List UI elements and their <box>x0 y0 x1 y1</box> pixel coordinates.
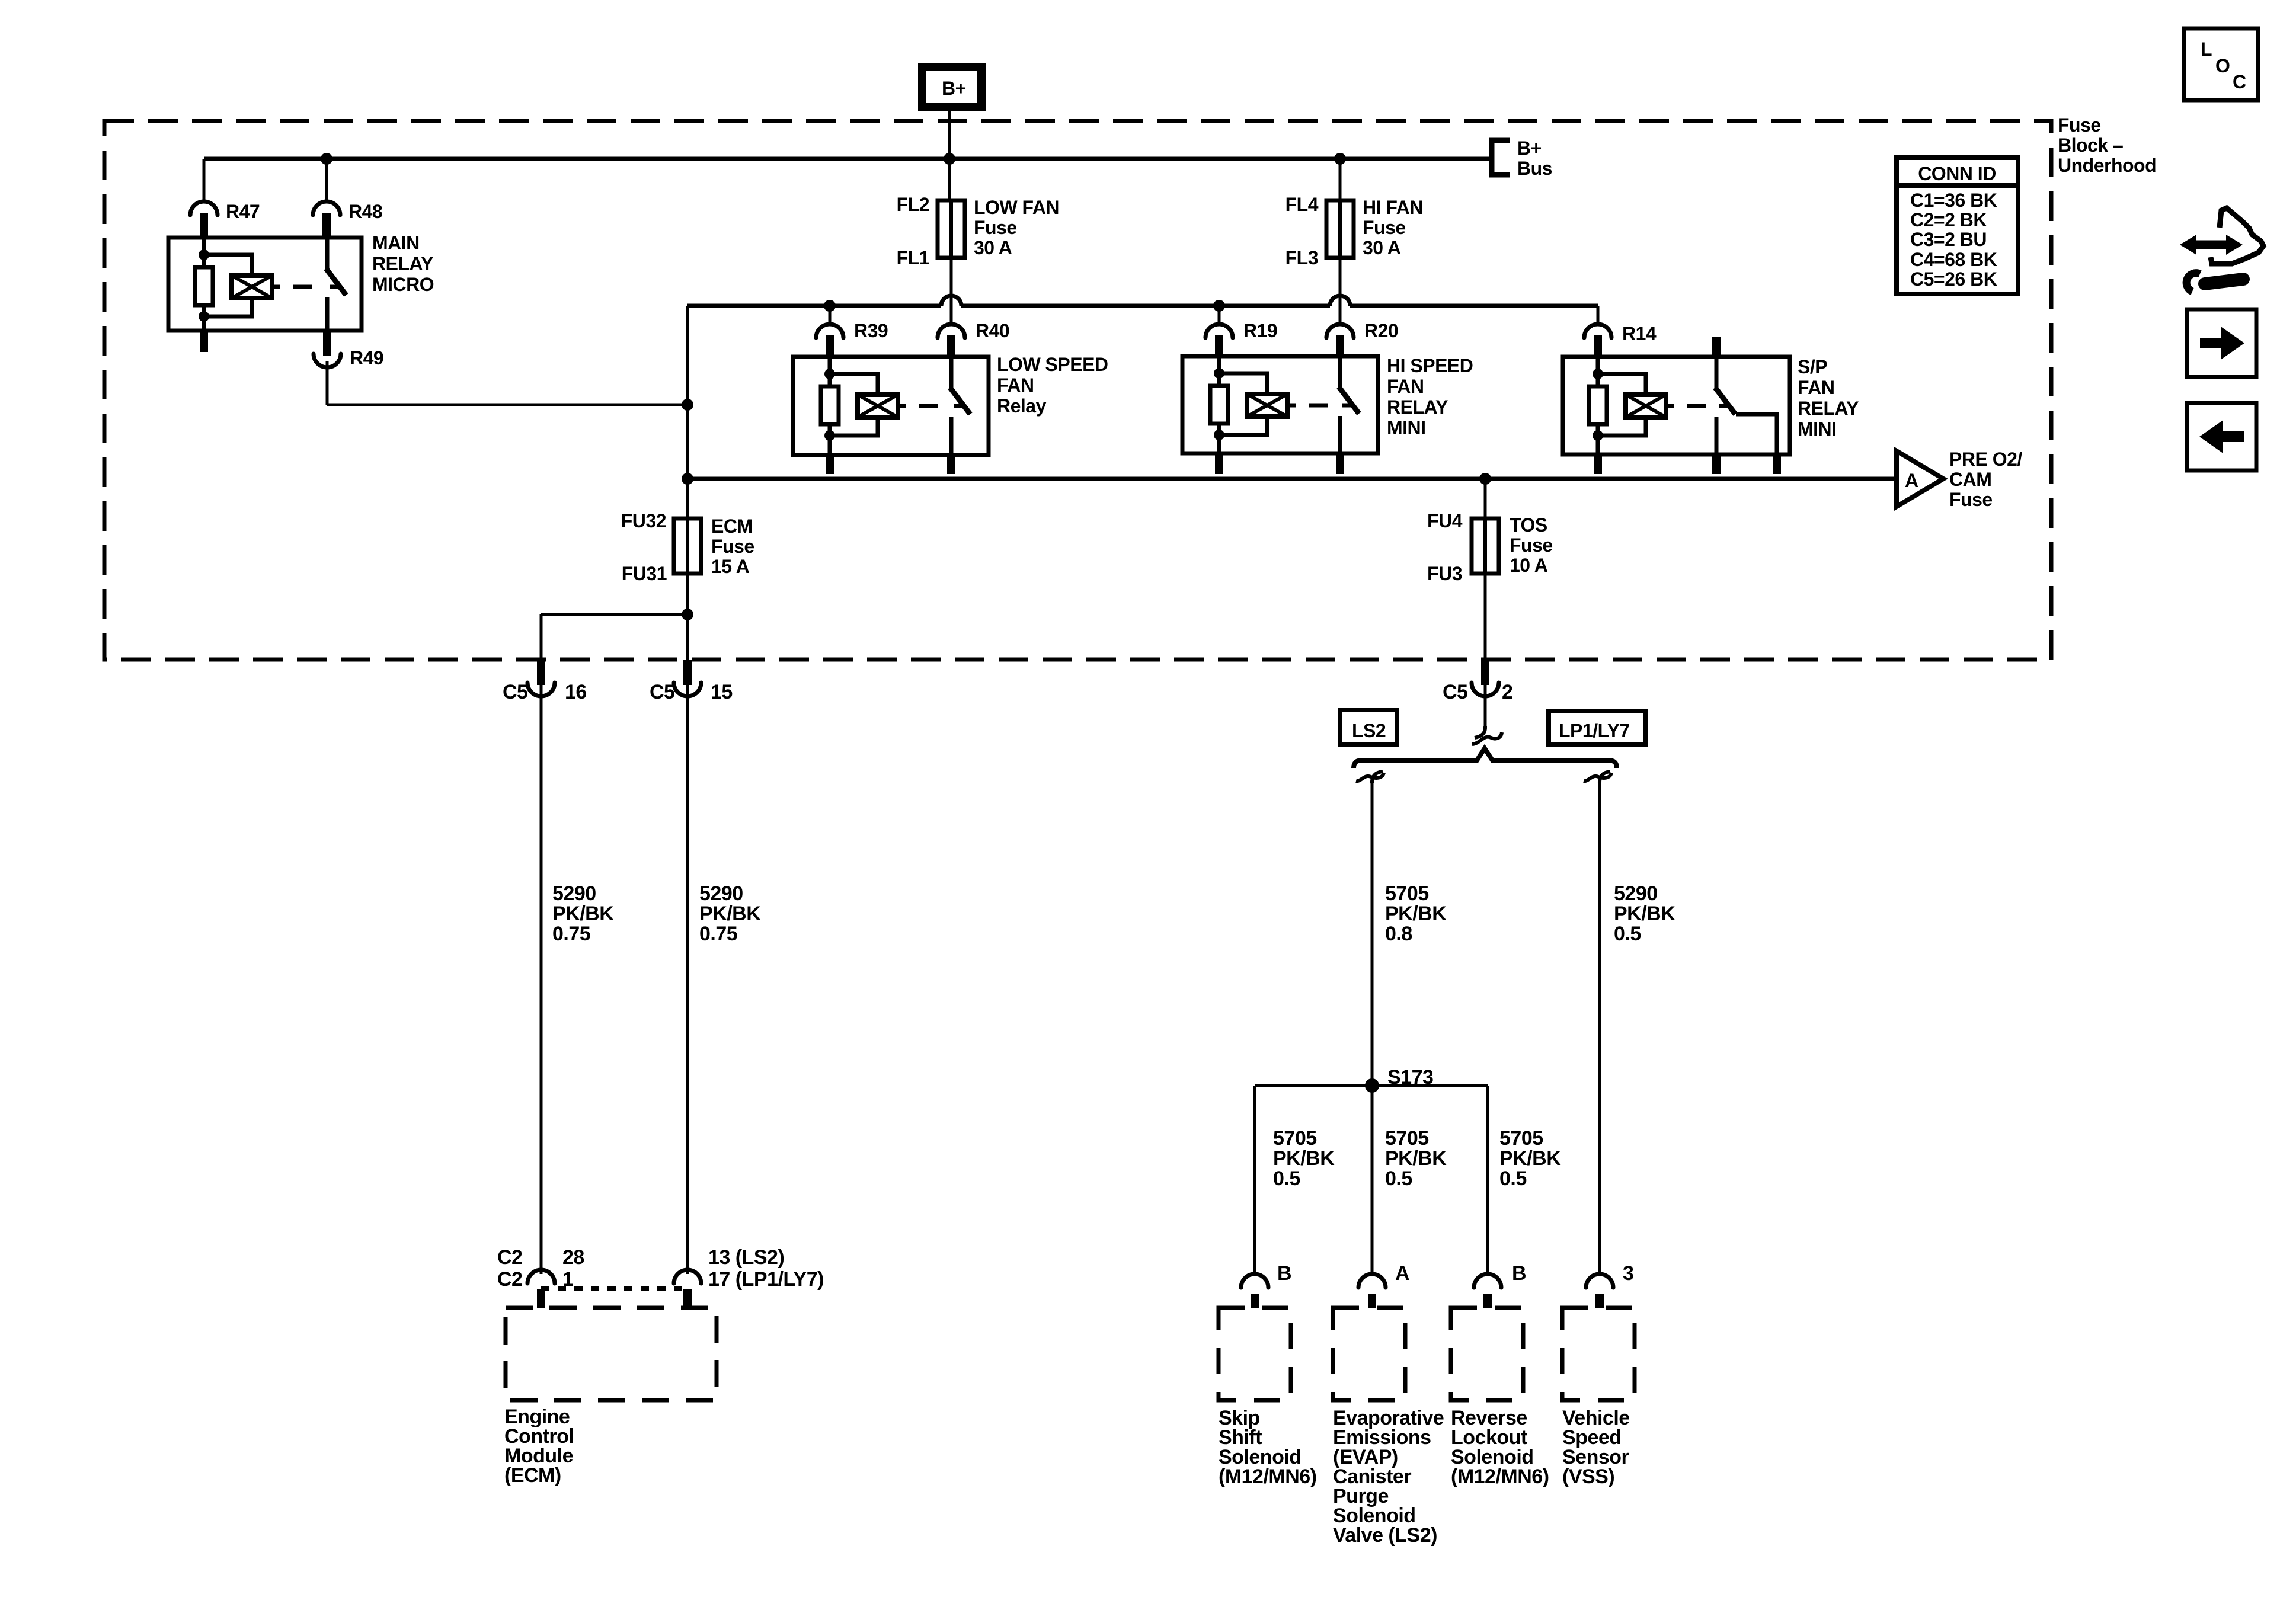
svg-text:O: O <box>2215 55 2230 76</box>
svg-text:5705: 5705 <box>1385 1127 1429 1150</box>
junction dot S173 <box>1365 1078 1379 1093</box>
wire trunk 1160 upper <box>686 306 689 405</box>
svg-text:FAN: FAN <box>1387 376 1424 397</box>
wire FU3 down <box>1484 574 1487 664</box>
wire bus to R48 <box>325 159 328 202</box>
left arrow <box>2220 431 2244 442</box>
svg-text:5290: 5290 <box>552 882 596 905</box>
wire B+ bus to FL2 fuse <box>948 159 951 200</box>
wire bus to R39 <box>829 306 832 324</box>
svg-text:LOW SPEED: LOW SPEED <box>997 354 1108 375</box>
service icon outline <box>2211 208 2263 264</box>
connector R39 <box>816 324 843 338</box>
pre-O2 A triangle <box>1897 451 1943 507</box>
LOC legend box <box>2184 28 2258 100</box>
wire R49 down <box>326 361 329 405</box>
svg-text:R49: R49 <box>350 347 383 369</box>
svg-text:30 A: 30 A <box>974 237 1012 258</box>
connector C5 15 <box>674 683 701 696</box>
connector C5 16 <box>527 683 555 696</box>
svg-text:PK/BK: PK/BK <box>699 902 761 925</box>
svg-text:C5: C5 <box>503 681 527 703</box>
svg-text:TOS: TOS <box>1510 514 1547 536</box>
svg-text:C5=26 BK: C5=26 BK <box>1910 268 1997 290</box>
B+ Bus terminal bracket <box>1492 140 1510 175</box>
svg-text:FAN: FAN <box>997 375 1034 396</box>
svg-text:RELAY: RELAY <box>1387 396 1448 418</box>
svg-text:5290: 5290 <box>1614 882 1658 905</box>
svg-text:RELAY: RELAY <box>1798 398 1859 419</box>
svg-text:A: A <box>1905 470 1918 491</box>
main relay micro box <box>168 238 362 331</box>
svg-text:0.5: 0.5 <box>1499 1167 1527 1190</box>
fuse FL4 FL3 hi fan <box>1338 200 1342 258</box>
svg-text:5705: 5705 <box>1385 882 1429 905</box>
connector R20 <box>1326 324 1354 338</box>
connector vss 3 <box>1586 1274 1613 1288</box>
svg-text:PK/BK: PK/BK <box>552 902 614 925</box>
svg-text:A: A <box>1395 1262 1409 1285</box>
s/p relay stub right <box>1773 454 1781 474</box>
wire reverse down <box>1486 1086 1489 1274</box>
svg-text:(VSS): (VSS) <box>1562 1465 1614 1488</box>
wire LP1 branch down <box>1598 777 1601 1274</box>
low speed fan relay internals <box>828 357 832 386</box>
svg-text:FL2: FL2 <box>897 194 929 215</box>
right arrow <box>2200 338 2224 348</box>
svg-text:5705: 5705 <box>1273 1127 1317 1150</box>
ECM connector dotted link <box>541 1286 687 1291</box>
wire hop at FL1 <box>941 296 961 306</box>
svg-text:R19: R19 <box>1243 320 1277 341</box>
svg-text:L: L <box>2201 39 2212 60</box>
svg-text:Block –: Block – <box>2058 135 2123 156</box>
svg-text:LS2: LS2 <box>1352 720 1386 741</box>
wire break squiggle LS2 branch <box>1372 772 1383 783</box>
service icon double arrow <box>2189 241 2233 249</box>
svg-text:5705: 5705 <box>1499 1127 1543 1150</box>
svg-text:R14: R14 <box>1622 323 1657 344</box>
svg-text:Fuse: Fuse <box>974 217 1017 238</box>
main relay internals <box>202 238 206 267</box>
svg-text:B+: B+ <box>1517 137 1542 159</box>
junction dot B+ to FL4 <box>1334 153 1346 165</box>
wire B+ to bus <box>948 111 951 159</box>
svg-text:0.5: 0.5 <box>1614 923 1641 945</box>
wire FU31 down <box>686 574 689 614</box>
hi speed fan relay internals <box>1217 356 1221 386</box>
connector evap A <box>1358 1274 1386 1288</box>
svg-text:C1=36 BK: C1=36 BK <box>1910 190 1997 211</box>
svg-text:B+: B+ <box>942 78 966 99</box>
svg-text:C4=68 BK: C4=68 BK <box>1910 249 1997 270</box>
s/p fan relay box <box>1563 357 1790 454</box>
svg-text:FU3: FU3 <box>1427 563 1462 584</box>
junction dot FU4 tap <box>1479 473 1491 485</box>
hi speed fan relay box <box>1182 356 1378 453</box>
wire hop at FL3 <box>1330 296 1350 306</box>
right arrow box <box>2187 309 2256 377</box>
svg-text:MINI: MINI <box>1387 417 1426 438</box>
connector C5 2 <box>1472 683 1499 696</box>
wire B+ bus to FL4 fuse <box>1339 159 1342 200</box>
svg-text:FU4: FU4 <box>1427 510 1463 532</box>
svg-text:2: 2 <box>1502 681 1512 703</box>
svg-text:PK/BK: PK/BK <box>1614 902 1675 925</box>
svg-text:RELAY: RELAY <box>372 253 433 274</box>
svg-text:Fuse: Fuse <box>2058 114 2101 136</box>
evap solenoid box <box>1333 1308 1405 1400</box>
skip shift solenoid box <box>1219 1308 1291 1400</box>
junction dot B+ to FL2 <box>944 153 955 165</box>
svg-text:C5: C5 <box>1443 681 1467 703</box>
svg-text:0.75: 0.75 <box>552 923 590 945</box>
svg-text:PK/BK: PK/BK <box>1499 1147 1561 1170</box>
svg-text:(M12/MN6): (M12/MN6) <box>1219 1465 1317 1488</box>
svg-text:Valve (LS2): Valve (LS2) <box>1333 1524 1437 1547</box>
wire LS2 branch down <box>1371 777 1374 1086</box>
svg-text:C2: C2 <box>497 1246 522 1269</box>
svg-text:R47: R47 <box>226 201 260 222</box>
svg-text:Underhood: Underhood <box>2058 155 2156 176</box>
hi speed relay stub left <box>1215 453 1223 474</box>
junction dot R39 feed <box>824 300 836 312</box>
wire trunk down to C5 15 <box>686 614 689 664</box>
wire break squiggle center <box>1475 726 1485 738</box>
svg-text:R48: R48 <box>348 201 382 222</box>
CONN ID separator <box>1897 183 2018 188</box>
connector R14 <box>1584 324 1611 338</box>
connector ECM 28 <box>527 1270 555 1283</box>
wire skip shift down <box>1253 1086 1256 1274</box>
fuse FU32 FU31 ecm <box>686 518 689 574</box>
wire bus to R47 <box>203 159 206 202</box>
wire FL1 to hop <box>950 258 953 324</box>
fuse FU4 FU3 tos <box>1483 518 1487 574</box>
junction dot pre-O2 tap <box>682 473 693 485</box>
svg-text:0.8: 0.8 <box>1385 923 1412 945</box>
wire hop to R40 <box>950 306 953 317</box>
svg-text:B: B <box>1512 1262 1526 1285</box>
wire bus to R19 <box>1218 306 1221 324</box>
connector R49 <box>314 354 341 367</box>
svg-text:PK/BK: PK/BK <box>1385 1147 1447 1170</box>
svg-text:R40: R40 <box>976 320 1009 341</box>
svg-text:Fuse: Fuse <box>711 536 754 557</box>
S173 horizontal <box>1255 1084 1488 1087</box>
B+ battery feed symbol <box>918 63 986 111</box>
svg-text:Fuse: Fuse <box>1510 534 1553 556</box>
connector R47 <box>190 201 218 215</box>
junction dot R19 feed <box>1213 300 1225 312</box>
connector ECM 13 <box>674 1270 701 1283</box>
hi speed relay stub right <box>1336 453 1344 474</box>
wire C5 2 down <box>1484 683 1487 730</box>
svg-text:S/P: S/P <box>1798 356 1827 377</box>
svg-text:R20: R20 <box>1364 320 1398 341</box>
svg-text:13 (LS2): 13 (LS2) <box>708 1246 784 1269</box>
reverse lockout box <box>1451 1308 1523 1400</box>
svg-text:R39: R39 <box>854 320 888 341</box>
low speed relay stub right <box>947 455 955 474</box>
s/p fan relay internals <box>1596 357 1600 386</box>
pre-O2 cam fuse bus <box>687 477 1894 481</box>
svg-text:10 A: 10 A <box>1510 555 1548 576</box>
svg-text:MICRO: MICRO <box>372 274 434 295</box>
svg-text:3: 3 <box>1623 1262 1633 1285</box>
svg-text:PK/BK: PK/BK <box>1273 1147 1335 1170</box>
svg-text:FAN: FAN <box>1798 377 1835 398</box>
vss box <box>1562 1308 1635 1400</box>
main relay R49 pin <box>323 331 331 350</box>
s/p relay top right stub <box>1712 337 1721 357</box>
junction dot ECM branch <box>682 609 693 620</box>
svg-text:FL3: FL3 <box>1285 247 1318 268</box>
svg-text:5290: 5290 <box>699 882 743 905</box>
wire C5 15 down <box>686 685 689 1274</box>
svg-text:C3=2 BU: C3=2 BU <box>1910 229 1987 250</box>
connector R40 <box>938 324 965 338</box>
svg-text:MINI: MINI <box>1798 418 1837 440</box>
wire branch left <box>541 613 687 616</box>
wire pre-O2 to FU4 <box>1484 479 1487 518</box>
svg-text:HI FAN: HI FAN <box>1363 197 1423 218</box>
svg-text:(ECM): (ECM) <box>504 1464 561 1487</box>
svg-text:C2=2 BK: C2=2 BK <box>1910 209 1987 231</box>
fuse FL2 FL1 low fan <box>949 200 953 258</box>
svg-text:Fuse: Fuse <box>1363 217 1406 238</box>
CONN ID table box <box>1897 158 2018 294</box>
wire trunk 1160 mid <box>686 405 689 518</box>
ECM dashed box <box>506 1308 717 1400</box>
svg-text:B: B <box>1277 1262 1291 1285</box>
s/p relay NC branch <box>1736 414 1777 454</box>
svg-text:Fuse: Fuse <box>1949 489 1993 510</box>
left arrow box <box>2187 403 2256 470</box>
connector R19 <box>1205 324 1233 338</box>
wire branch left down <box>540 614 543 664</box>
wire evap down <box>1371 1086 1374 1274</box>
svg-text:FU32: FU32 <box>621 510 666 532</box>
svg-text:C: C <box>2233 71 2246 92</box>
svg-text:17 (LP1/LY7): 17 (LP1/LY7) <box>708 1268 824 1291</box>
wire FL3 to R20 <box>1339 258 1342 324</box>
connector R48 <box>313 201 340 215</box>
main relay coil ground stub <box>200 331 208 352</box>
svg-text:28: 28 <box>562 1246 584 1269</box>
svg-text:C5: C5 <box>650 681 674 703</box>
LP1/LY7 box <box>1549 711 1645 744</box>
svg-text:ECM: ECM <box>711 516 753 537</box>
wire R49 horizontal <box>327 404 687 406</box>
wire bus corner to R14 <box>1597 306 1600 324</box>
svg-text:LOW FAN: LOW FAN <box>974 197 1059 218</box>
svg-text:(M12/MN6): (M12/MN6) <box>1451 1465 1549 1488</box>
svg-text:FL4: FL4 <box>1285 194 1319 215</box>
svg-text:Bus: Bus <box>1517 158 1552 179</box>
junction dot R48 <box>321 153 332 165</box>
s/p relay stub left <box>1594 454 1602 474</box>
svg-text:PRE O2/: PRE O2/ <box>1949 449 2022 470</box>
svg-text:0.5: 0.5 <box>1385 1167 1412 1190</box>
svg-text:CAM: CAM <box>1949 469 1991 490</box>
svg-text:15 A: 15 A <box>711 556 750 577</box>
svg-text:MAIN: MAIN <box>372 232 420 254</box>
svg-text:0.5: 0.5 <box>1273 1167 1300 1190</box>
svg-text:C2: C2 <box>497 1268 522 1291</box>
svg-text:16: 16 <box>565 681 587 703</box>
wire break squiggle LP1 branch <box>1600 772 1610 783</box>
relay feed bus <box>687 304 1598 308</box>
LS2 box <box>1340 710 1397 745</box>
low speed fan relay box <box>793 357 989 455</box>
svg-text:FL1: FL1 <box>897 247 929 268</box>
connector skip shift B <box>1241 1274 1268 1288</box>
svg-text:FU31: FU31 <box>622 563 667 584</box>
low speed relay stub left <box>826 455 834 474</box>
B+ bus wire <box>204 157 1490 161</box>
svg-text:PK/BK: PK/BK <box>1385 902 1447 925</box>
wire C5 16 down <box>540 685 543 1274</box>
service icon wrench <box>2186 273 2200 292</box>
fuse block underhood dashed border <box>104 121 2051 660</box>
junction dot R49 feed <box>682 399 693 411</box>
svg-text:CONN ID: CONN ID <box>1918 163 1996 184</box>
svg-text:HI SPEED: HI SPEED <box>1387 355 1473 376</box>
svg-text:0.75: 0.75 <box>699 923 737 945</box>
engine split brace <box>1354 748 1617 768</box>
s/p relay stub mid <box>1712 454 1721 474</box>
svg-text:LP1/LY7: LP1/LY7 <box>1559 720 1630 741</box>
connector reverse B <box>1474 1274 1501 1288</box>
svg-text:Relay: Relay <box>997 395 1047 417</box>
svg-text:30 A: 30 A <box>1363 237 1401 258</box>
svg-text:15: 15 <box>711 681 733 703</box>
